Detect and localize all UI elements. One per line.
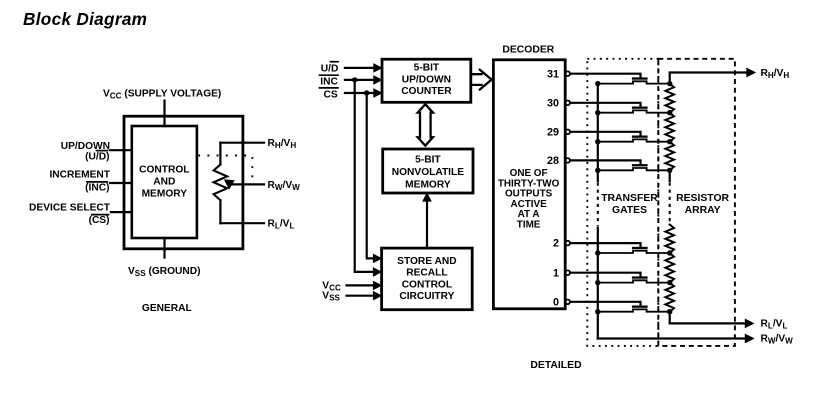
decoder output bubble 30: [565, 101, 570, 106]
transistor Q2 gate bar: [632, 247, 648, 249]
transfer gates dotted box: [587, 59, 658, 346]
control and memory text: [139, 164, 189, 199]
svg-text:AND: AND: [153, 176, 175, 187]
resistor R2 array: [665, 113, 674, 142]
wire wiper bus upper: [597, 84, 599, 181]
transistor Q2 channel: [598, 251, 670, 253]
overbar inc detailed: [320, 74, 339, 76]
svg-text:UP/DOWN: UP/DOWN: [402, 75, 451, 86]
wire rh general: [220, 142, 264, 144]
resistor pot element: [214, 165, 228, 201]
wire resistor stub below 28: [669, 170, 671, 181]
bidirectional bus arrow: [418, 104, 433, 146]
overbar inc: [87, 181, 107, 183]
transistor Q0 gate bar: [632, 306, 648, 308]
wire pot bottom: [219, 200, 221, 223]
resistor R4 array: [665, 225, 674, 254]
svg-text:29: 29: [547, 126, 559, 138]
svg-text:U/D: U/D: [321, 64, 339, 75]
svg-text:INC: INC: [320, 76, 338, 87]
wiper arrow: [225, 180, 234, 189]
svg-text:DECODER: DECODER: [502, 45, 554, 56]
wire vcc to store: [347, 284, 375, 286]
transistor Q28 channel: [598, 168, 670, 170]
svg-text:NONVOLATILE: NONVOLATILE: [392, 167, 464, 178]
svg-text:DETAILED: DETAILED: [530, 360, 582, 371]
resistor R6 array: [665, 283, 674, 312]
transistor Q30 gate bar: [632, 107, 648, 109]
memory box U3: [383, 149, 473, 193]
svg-text:ARRAY: ARRAY: [685, 205, 721, 216]
svg-text:GENERAL: GENERAL: [142, 303, 192, 314]
svg-text:Block Diagram: Block Diagram: [23, 9, 147, 29]
wire rl general: [220, 222, 264, 224]
label device select: [29, 203, 111, 226]
wire cs input: [111, 211, 132, 213]
junction wiper bus 29: [595, 139, 600, 144]
overbar d: [331, 61, 339, 63]
transistor Q1 channel: [598, 280, 670, 282]
junction wiper bus 0: [595, 309, 600, 314]
svg-text:TIME: TIME: [517, 219, 541, 230]
svg-text:CONTROL: CONTROL: [139, 164, 189, 175]
decoder box U5: [493, 60, 565, 309]
decoder inner text: [498, 168, 560, 230]
wire gate lead 2: [570, 243, 641, 247]
svg-text:CIRCUITRY: CIRCUITRY: [399, 291, 454, 302]
svg-text:TRANSFER: TRANSFER: [601, 193, 658, 204]
decoder output bubble 29: [565, 130, 570, 135]
node resistor tap 30: [667, 110, 672, 115]
svg-text:RESISTOR: RESISTOR: [676, 193, 729, 204]
decoder output bubble 31: [565, 71, 570, 76]
wire u/d input: [110, 149, 132, 151]
dotted control line h: [198, 155, 252, 157]
transistor Q1 gate bar: [632, 276, 648, 278]
node resistor tap 29: [667, 139, 672, 144]
wire wiper bus dashed continuation: [597, 183, 599, 227]
node resistor tap 28: [667, 168, 672, 173]
label up/down: [61, 141, 110, 163]
svg-text:31: 31: [547, 68, 559, 80]
transfer gates label: [601, 193, 658, 216]
wire rl from bottom tap: [670, 312, 747, 324]
svg-text:INCREMENT: INCREMENT: [49, 170, 110, 181]
node resistor tap 31: [667, 81, 672, 86]
junction wiper bus 2: [595, 250, 600, 255]
counter box U2: [382, 59, 471, 102]
store text: [397, 256, 456, 302]
resistor R1 array: [665, 84, 674, 113]
svg-text:OUTPUTS: OUTPUTS: [505, 189, 553, 200]
svg-text:CONTROL: CONTROL: [402, 279, 452, 290]
wire rw general: [232, 183, 265, 185]
wire u/d to counter: [345, 67, 375, 69]
wire vss to store: [347, 295, 375, 297]
overbar cs detailed: [320, 87, 339, 89]
wire cs to counter: [345, 92, 375, 94]
wire gate lead 31: [570, 74, 641, 78]
wire pot top: [219, 143, 221, 165]
wire inc drop to store: [355, 80, 375, 272]
junction wiper bus 28: [595, 168, 600, 173]
decoder output bubble 1: [565, 270, 570, 275]
resistor array label: [676, 193, 729, 216]
wire rw output: [598, 337, 747, 339]
junction inc: [352, 77, 357, 82]
wire rh from top tap: [670, 73, 748, 84]
svg-text:DEVICE SELECT: DEVICE SELECT: [29, 203, 111, 214]
svg-text:(U/D): (U/D): [85, 152, 109, 163]
node resistor tap 2: [667, 250, 672, 255]
wire inc to counter: [345, 79, 375, 81]
junction wiper bus 30: [595, 110, 600, 115]
wire gate lead 0: [570, 302, 641, 306]
transistor Q29 gate bar: [632, 136, 648, 138]
transistor Q30 channel: [598, 110, 670, 112]
svg-text:RECALL: RECALL: [406, 268, 447, 279]
svg-text:STORE AND: STORE AND: [397, 256, 456, 267]
wire vss stub: [163, 238, 165, 258]
decoder output bubble 2: [565, 241, 570, 246]
wire store to memory: [426, 200, 428, 249]
wire resistor dashed continuation: [669, 183, 671, 224]
outer box general: [124, 116, 243, 249]
resistor R3 array: [665, 142, 674, 171]
transistor Q0 channel: [598, 309, 670, 311]
store box U4: [382, 248, 473, 310]
label increment: [49, 170, 110, 194]
svg-text:1: 1: [553, 267, 559, 279]
wire cs drop to store: [367, 93, 375, 258]
wire gate lead 30: [570, 103, 641, 107]
overbar u/d: [97, 150, 108, 152]
svg-text:VCC (SUPPLY VOLTAGE): VCC (SUPPLY VOLTAGE): [103, 89, 221, 101]
wire inc input: [110, 182, 132, 184]
svg-text:28: 28: [547, 155, 559, 167]
svg-text:5-BIT: 5-BIT: [415, 155, 441, 166]
bus arrow counter to decoder: [471, 70, 492, 90]
node resistor tap 0: [667, 309, 672, 314]
node resistor tap 1: [667, 280, 672, 285]
svg-text:2: 2: [553, 238, 559, 250]
decoder output bubble 28: [565, 158, 570, 163]
wire gate lead 28: [570, 160, 641, 164]
wire gate lead 1: [570, 273, 641, 277]
svg-text:COUNTER: COUNTER: [401, 86, 452, 97]
wire wiper bus lower: [597, 228, 599, 339]
junction cs: [364, 90, 369, 95]
transistor Q31 gate bar: [632, 77, 648, 79]
svg-text:0: 0: [553, 296, 559, 308]
svg-text:CS: CS: [324, 89, 338, 100]
resistor R5 array: [665, 253, 674, 283]
overbar cs: [92, 214, 109, 216]
junction wiper bus 31: [595, 81, 600, 86]
decoder output bubble 0: [565, 300, 570, 305]
svg-text:MEMORY: MEMORY: [142, 188, 188, 199]
svg-text:GATES: GATES: [612, 205, 647, 216]
counter text: [401, 63, 452, 97]
resistor array dashed box: [658, 59, 735, 346]
memory text: [392, 155, 464, 191]
svg-text:(INC): (INC): [85, 183, 109, 194]
svg-text:(CS): (CS): [89, 215, 110, 226]
transistor Q28 gate bar: [632, 164, 648, 166]
wire gate lead 29: [570, 132, 641, 136]
control and memory box U1: [132, 126, 197, 238]
dotted control line v: [251, 157, 253, 184]
transistor Q29 channel: [598, 139, 670, 141]
svg-text:5-BIT: 5-BIT: [414, 63, 440, 74]
svg-text:MEMORY: MEMORY: [405, 179, 451, 190]
junction wiper bus 1: [595, 280, 600, 285]
transistor Q31 channel: [598, 81, 670, 83]
wire vcc stub: [163, 101, 165, 127]
svg-text:30: 30: [547, 97, 559, 109]
